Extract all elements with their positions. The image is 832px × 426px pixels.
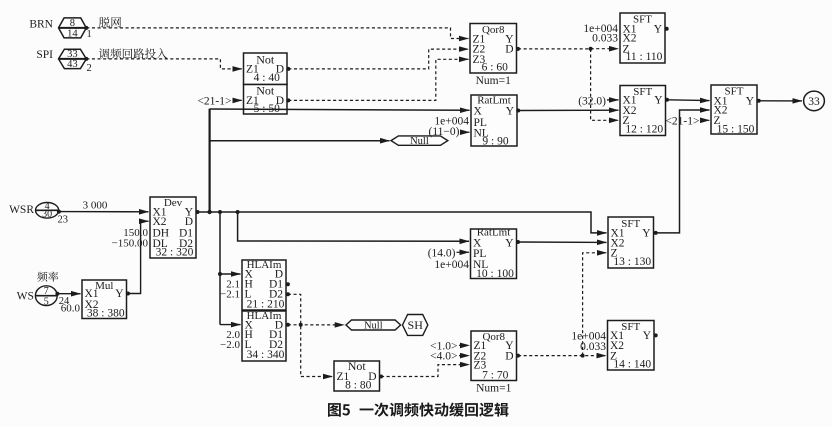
svg-text:(14.0): (14.0): [428, 247, 456, 259]
svg-text:9 : 90: 9 : 90: [482, 135, 508, 147]
svg-text:<21-1>: <21-1>: [665, 115, 699, 127]
svg-text:1: 1: [87, 29, 92, 40]
svg-text:23: 23: [58, 215, 69, 226]
svg-text:12 : 120: 12 : 120: [625, 123, 663, 135]
svg-text:Not: Not: [348, 359, 367, 373]
svg-text:60.0: 60.0: [61, 303, 81, 315]
svg-text:38 : 380: 38 : 380: [87, 308, 125, 320]
svg-text:Not: Not: [256, 83, 275, 97]
svg-text:14 : 140: 14 : 140: [613, 359, 651, 371]
svg-text:−150.00: −150.00: [112, 237, 149, 249]
svg-text:<4.0>: <4.0>: [430, 351, 457, 363]
svg-text:D: D: [505, 350, 513, 362]
svg-text:33: 33: [808, 96, 820, 108]
svg-text:Null: Null: [410, 136, 429, 147]
svg-text:(32.0): (32.0): [578, 96, 606, 108]
svg-text:10 : 100: 10 : 100: [476, 268, 514, 280]
svg-text:X2: X2: [153, 216, 167, 228]
svg-text:X: X: [474, 106, 483, 118]
svg-text:14: 14: [67, 29, 78, 40]
svg-text:(11−0): (11−0): [429, 126, 460, 138]
svg-text:11 : 110: 11 : 110: [626, 51, 663, 63]
svg-text:7 : 70: 7 : 70: [482, 369, 508, 381]
svg-text:2: 2: [87, 63, 92, 74]
svg-text:Dev: Dev: [164, 197, 183, 209]
svg-text:Y: Y: [654, 95, 663, 107]
svg-text:0.033: 0.033: [592, 33, 618, 45]
svg-text:BRN: BRN: [29, 18, 53, 30]
svg-text:Y: Y: [643, 330, 652, 342]
svg-text:Y: Y: [746, 96, 755, 108]
svg-text:SFT: SFT: [621, 321, 640, 333]
svg-text:WSR: WSR: [9, 204, 34, 216]
svg-text:Y: Y: [506, 106, 515, 118]
svg-text:Qor8: Qor8: [482, 24, 505, 36]
svg-text:Y: Y: [642, 228, 651, 240]
svg-text:D: D: [185, 216, 193, 228]
svg-text:0.033: 0.033: [580, 341, 606, 353]
svg-text:SH: SH: [408, 318, 424, 332]
svg-text:13 : 130: 13 : 130: [613, 256, 651, 268]
svg-text:3 000: 3 000: [83, 199, 108, 211]
svg-text:Y: Y: [115, 288, 124, 300]
svg-text:D: D: [505, 44, 513, 56]
svg-text:Num=1: Num=1: [476, 383, 511, 395]
svg-text:Null: Null: [364, 320, 383, 331]
svg-text:SPI: SPI: [36, 49, 53, 61]
svg-text:5: 5: [44, 297, 49, 308]
svg-text:8 : 80: 8 : 80: [345, 379, 371, 391]
svg-text:4 : 40: 4 : 40: [254, 72, 280, 84]
svg-text:Not: Not: [256, 52, 275, 66]
svg-text:−2.0: −2.0: [220, 339, 240, 351]
svg-text:<21-1>: <21-1>: [197, 95, 231, 107]
svg-text:WS: WS: [17, 291, 34, 303]
svg-text:32 : 320: 32 : 320: [156, 246, 194, 258]
svg-text:1e+004: 1e+004: [434, 259, 469, 271]
svg-text:34 : 340: 34 : 340: [247, 349, 285, 361]
svg-text:21 : 210: 21 : 210: [247, 299, 285, 311]
svg-text:7: 7: [44, 286, 49, 297]
svg-text:30: 30: [42, 209, 52, 220]
svg-text:6 : 60: 6 : 60: [482, 61, 508, 73]
svg-text:Num=1: Num=1: [476, 75, 511, 87]
svg-text:−2.1: −2.1: [220, 289, 240, 301]
svg-text:8: 8: [70, 18, 75, 29]
svg-text:Y: Y: [505, 237, 514, 249]
svg-text:15 : 150: 15 : 150: [717, 123, 755, 135]
svg-text:Y: Y: [654, 23, 663, 35]
svg-text:43: 43: [67, 59, 78, 70]
